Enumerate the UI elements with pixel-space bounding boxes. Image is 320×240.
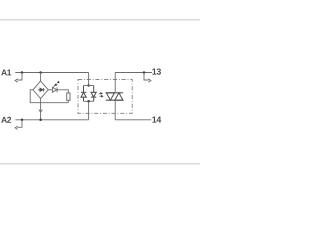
terminal label 13 [152, 68, 161, 74]
node A2 junction [21, 119, 24, 122]
terminal clamp A2 [17, 120, 22, 128]
wire bridge top stub [40, 73, 42, 82]
page rule bottom [0, 163, 200, 165]
wire triac bottom to 14 rail [114, 100, 116, 120]
opto LED pair branch rectangle [84, 85, 94, 87]
node bridge top junction [39, 71, 42, 74]
wire 14 rail [115, 119, 151, 121]
node opto LED bottom [87, 100, 90, 103]
node bridge bottom junction [39, 119, 42, 122]
opto light coupling arrows [99, 92, 104, 97]
terminal clamp A1 [17, 73, 22, 81]
wire resistor to loop bottom [67, 100, 69, 102]
terminal label A2 [1, 117, 11, 123]
triac Q1 output [106, 93, 123, 100]
LED emission arrows [53, 81, 59, 88]
opto LED D2 right branch (pointing down) [93, 86, 95, 93]
wire 13 rail [115, 72, 152, 74]
page rule top [0, 19, 200, 21]
resistor R1 [67, 93, 70, 100]
wire A1 rail corner down to opto input [88, 73, 90, 86]
wire bridge bottom to A2 with polarity arrow [40, 99, 42, 120]
wire A1 rail [15, 72, 88, 74]
wire bridge right vertex to LED [48, 89, 52, 91]
diode inside bridge [38, 88, 45, 92]
wire LED to resistor [58, 90, 69, 93]
terminal label 14 [152, 117, 161, 123]
node A1 junction [21, 71, 24, 74]
opto LED D1 left branch (pointing up) [81, 86, 96, 102]
wire DC loop left side [30, 90, 68, 103]
wire triac top to 13 rail [114, 73, 116, 93]
terminal label A1 [1, 69, 11, 75]
wire A2 rail [15, 119, 88, 121]
node opto LED top [87, 84, 90, 87]
node terminal 13 junction [143, 71, 146, 74]
wire opto input return to A2 rail [88, 101, 90, 120]
terminal clamp 13 [144, 73, 149, 81]
rectifier bridge B1 diamond [33, 81, 48, 99]
optocoupler U1 boundary box [78, 80, 132, 114]
LED V1 indicator diode [52, 87, 56, 92]
